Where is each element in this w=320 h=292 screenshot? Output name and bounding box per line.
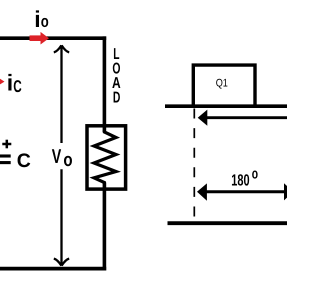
wire right vertical (bottom section) [103,183,107,271]
resistor zigzag [94,130,116,184]
wire right vertical (top section) [103,36,107,132]
wire top [0,36,106,40]
svg-text:C: C [13,77,21,96]
svg-text:o: o [252,167,258,183]
load box [87,126,126,189]
svg-text:180: 180 [231,172,249,190]
capacitor C plates (cropped at edge) [0,156,11,163]
dimension arrow 180deg (double headed) [197,183,293,201]
dashed reference line [193,109,195,222]
svg-text:D: D [113,90,121,107]
voltage arrow Vo lower segment [54,169,69,265]
svg-text:o: o [63,150,72,171]
wire bottom [0,267,106,271]
capacitor plus polarity [2,140,11,149]
svg-text:Q1: Q1 [216,77,228,89]
svg-text:o: o [41,12,49,31]
svg-text:C: C [17,150,31,172]
pulse Q1 [193,65,255,106]
voltage arrow Vo upper segment [54,45,69,143]
label LOAD [112,46,121,107]
current arrow i_C (cropped at edge) [0,79,5,85]
svg-text:i: i [7,70,13,96]
svg-text:V: V [52,146,62,168]
waveform baseline (lower) [168,221,288,225]
waveform baseline (upper) [165,104,287,108]
dimension arrow (under baseline) [198,110,287,126]
current arrow i_o [30,32,50,45]
